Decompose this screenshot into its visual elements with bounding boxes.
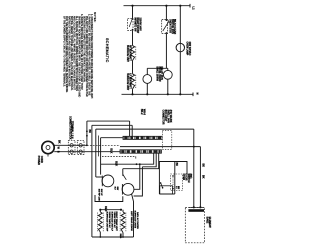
svg-text:DOOR: DOOR <box>184 174 186 181</box>
svg-text:BK: BK <box>202 164 205 168</box>
svg-text:BK-12 CLEAN: BK-12 CLEAN <box>173 19 176 35</box>
svg-text:ELEMENT: ELEMENT <box>208 217 210 229</box>
svg-text:40W 120VAC: 40W 120VAC <box>188 42 191 56</box>
svg-text:SW RF 120V: SW RF 120V <box>98 189 100 202</box>
svg-text:RED: RED <box>119 234 121 239</box>
svg-text:INFINITE SW: INFINITE SW <box>134 18 136 33</box>
svg-text:CORD: CORD <box>40 156 43 163</box>
svg-text:CONNECTOR: CONNECTOR <box>162 110 164 125</box>
svg-text:BLK: BLK <box>110 148 113 153</box>
svg-text:RF 2100 WATT: RF 2100 WATT <box>129 45 132 61</box>
svg-text:(BK): (BK) <box>189 174 191 179</box>
svg-text:BLK: BLK <box>115 161 118 166</box>
svg-text:SWITCH: SWITCH <box>187 174 189 183</box>
svg-text:POWER: POWER <box>37 156 40 165</box>
svg-text:OF THE POWER SUPPLY CIRCUIT TO: OF THE POWER SUPPLY CIRCUIT TO THE RANGE… <box>63 14 66 87</box>
svg-text:BK: BK <box>202 175 205 179</box>
svg-text:BK: BK <box>177 186 179 190</box>
svg-text:RELAY 240V: RELAY 240V <box>160 67 163 81</box>
svg-text:SU: SU <box>114 187 116 190</box>
svg-text:N: N <box>195 93 199 95</box>
svg-text:WH-5: WH-5 <box>143 109 146 116</box>
svg-text:2100W 240V: 2100W 240V <box>138 18 141 32</box>
svg-text:OVEN: OVEN <box>182 174 184 181</box>
svg-text:CONNECTOR BLOCK: CONNECTOR BLOCK <box>68 116 70 140</box>
svg-text:240V AC RATED: 240V AC RATED <box>136 212 139 229</box>
svg-text:LEFT REAR 1250W: LEFT REAR 1250W <box>130 211 133 232</box>
svg-text:LF 1250 WATT: LF 1250 WATT <box>129 73 132 89</box>
svg-text:NOTES:: NOTES: <box>93 12 97 22</box>
svg-text:TERMINAL L1 N: TERMINAL L1 N <box>71 121 74 139</box>
svg-text:BK: BK <box>175 163 178 167</box>
svg-text:BK: BK <box>88 130 91 134</box>
svg-text:RIGHT REAR UNIT: RIGHT REAR UNIT <box>115 212 118 232</box>
svg-text:SW LF: SW LF <box>100 189 102 196</box>
svg-text:RIGHT FRONT: RIGHT FRONT <box>136 18 138 34</box>
svg-text:R: R <box>57 151 60 153</box>
svg-text:(P1) WH-BK: (P1) WH-BK <box>169 110 171 123</box>
svg-text:BK: BK <box>58 140 61 144</box>
svg-text:SCHEMATIC: SCHEMATIC <box>105 38 109 63</box>
